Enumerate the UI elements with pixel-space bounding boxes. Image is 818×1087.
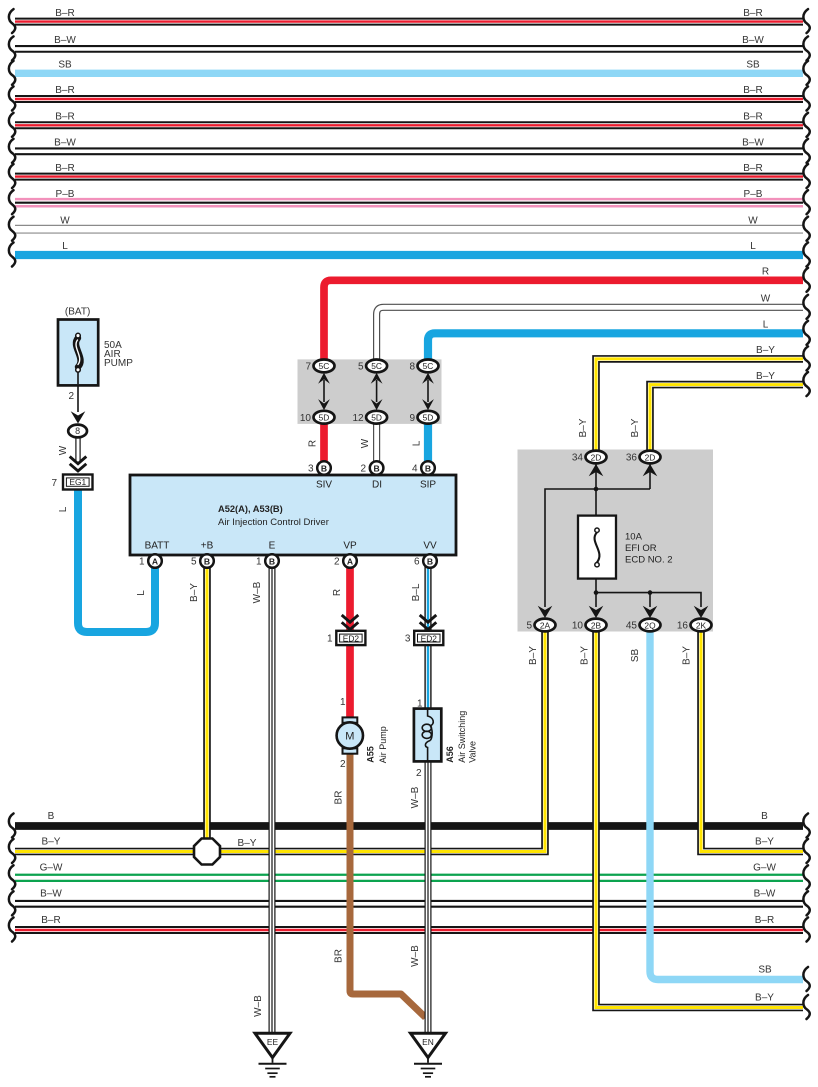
svg-text:Air Injection Control Driver: Air Injection Control Driver [218, 517, 329, 528]
svg-text:Air Pump: Air Pump [378, 726, 388, 763]
svg-text:L: L [62, 241, 68, 252]
svg-text:EE: EE [267, 1037, 279, 1047]
svg-text:2A: 2A [540, 620, 551, 630]
svg-text:L: L [763, 320, 769, 331]
svg-text:W: W [60, 215, 70, 226]
svg-text:VV: VV [423, 541, 437, 552]
svg-text:B: B [427, 556, 433, 566]
svg-text:G–W: G–W [40, 863, 63, 874]
svg-text:W: W [58, 445, 69, 455]
svg-text:12: 12 [352, 413, 364, 424]
svg-text:+B: +B [201, 541, 214, 552]
svg-text:2: 2 [340, 759, 346, 770]
svg-text:10: 10 [572, 621, 584, 632]
svg-text:B–Y: B–Y [682, 646, 693, 665]
svg-text:A52(A), A53(B): A52(A), A53(B) [218, 504, 283, 514]
svg-text:2K: 2K [696, 620, 707, 630]
svg-text:5: 5 [191, 557, 197, 568]
svg-text:B–R: B–R [55, 85, 74, 96]
svg-text:2: 2 [361, 464, 367, 475]
svg-text:B–Y: B–Y [630, 418, 641, 437]
svg-text:SIV: SIV [316, 480, 332, 491]
svg-text:R: R [332, 589, 343, 596]
svg-text:L: L [412, 440, 423, 446]
svg-text:R: R [762, 267, 769, 278]
svg-text:A56: A56 [445, 746, 455, 763]
svg-text:B–R: B–R [55, 163, 74, 174]
svg-text:5D: 5D [371, 413, 382, 423]
svg-text:5: 5 [358, 362, 364, 373]
svg-text:ED2: ED2 [421, 633, 438, 643]
svg-text:SB: SB [746, 60, 760, 71]
svg-text:10A: 10A [625, 532, 643, 543]
svg-text:A: A [152, 556, 158, 566]
svg-text:B–R: B–R [55, 8, 74, 19]
svg-text:ED2: ED2 [343, 633, 360, 643]
svg-text:B–R: B–R [743, 163, 762, 174]
svg-text:2B: 2B [591, 620, 602, 630]
svg-text:B–R: B–R [755, 915, 774, 926]
svg-text:Valve: Valve [467, 741, 477, 763]
svg-text:45: 45 [626, 621, 638, 632]
svg-text:7: 7 [51, 478, 57, 489]
svg-text:1: 1 [340, 697, 346, 708]
svg-text:BR: BR [334, 791, 345, 805]
svg-text:W: W [748, 215, 758, 226]
svg-text:B–W: B–W [54, 138, 76, 149]
svg-text:B: B [761, 811, 768, 822]
svg-text:W: W [360, 438, 371, 448]
svg-text:B–R: B–R [743, 112, 762, 123]
svg-text:SB: SB [58, 60, 72, 71]
svg-text:8: 8 [409, 362, 415, 373]
svg-text:1: 1 [256, 557, 262, 568]
svg-text:7: 7 [305, 362, 311, 373]
svg-text:2D: 2D [645, 452, 656, 462]
svg-text:B: B [373, 463, 379, 473]
svg-text:B: B [204, 556, 210, 566]
svg-text:B–Y: B–Y [755, 992, 774, 1003]
svg-text:3: 3 [308, 464, 314, 475]
svg-text:B–R: B–R [41, 915, 60, 926]
svg-text:(BAT): (BAT) [65, 307, 90, 318]
svg-text:B–R: B–R [743, 8, 762, 19]
svg-text:A: A [347, 556, 353, 566]
svg-text:E: E [269, 541, 276, 552]
svg-text:W–B: W–B [252, 581, 263, 603]
svg-text:B–Y: B–Y [578, 418, 589, 437]
svg-text:B–Y: B–Y [42, 836, 61, 847]
svg-text:5C: 5C [423, 361, 434, 371]
svg-text:W–B: W–B [253, 995, 264, 1017]
svg-text:16: 16 [677, 621, 689, 632]
svg-text:L: L [58, 506, 69, 512]
svg-text:PUMP: PUMP [104, 358, 133, 369]
svg-text:9: 9 [409, 413, 415, 424]
svg-text:BATT: BATT [145, 541, 170, 552]
svg-text:ECD NO. 2: ECD NO. 2 [625, 555, 673, 566]
svg-text:3: 3 [405, 634, 411, 645]
svg-text:36: 36 [626, 453, 638, 464]
svg-text:SIP: SIP [420, 480, 436, 491]
svg-text:B: B [48, 811, 55, 822]
svg-text:R: R [308, 440, 319, 447]
svg-text:B–Y: B–Y [189, 583, 200, 602]
svg-text:EFI OR: EFI OR [625, 543, 657, 554]
svg-text:B–R: B–R [743, 85, 762, 96]
svg-text:5C: 5C [371, 361, 382, 371]
svg-text:B: B [425, 463, 431, 473]
svg-text:B: B [269, 556, 275, 566]
svg-text:2: 2 [334, 557, 340, 568]
svg-text:DI: DI [372, 480, 382, 491]
svg-text:BR: BR [334, 949, 345, 963]
svg-text:B–R: B–R [55, 112, 74, 123]
svg-text:B–W: B–W [54, 35, 76, 46]
svg-text:W–B: W–B [410, 945, 421, 967]
svg-text:A55: A55 [366, 746, 376, 763]
svg-text:P–B: P–B [744, 189, 763, 200]
svg-text:10: 10 [300, 413, 312, 424]
svg-text:4: 4 [412, 464, 418, 475]
svg-text:B–Y: B–Y [756, 345, 775, 356]
svg-text:M: M [345, 731, 354, 743]
svg-text:5C: 5C [319, 361, 330, 371]
svg-text:W: W [761, 294, 771, 305]
svg-text:SB: SB [630, 649, 641, 663]
svg-text:B: B [321, 463, 327, 473]
svg-text:5D: 5D [319, 413, 330, 423]
svg-text:B–W: B–W [754, 889, 776, 900]
svg-text:B–Y: B–Y [755, 836, 774, 847]
svg-text:5: 5 [526, 621, 532, 632]
svg-text:EN: EN [422, 1037, 434, 1047]
svg-text:2D: 2D [591, 452, 602, 462]
svg-text:Air Switching: Air Switching [457, 711, 467, 763]
svg-text:B–W: B–W [742, 138, 764, 149]
svg-text:B–Y: B–Y [756, 371, 775, 382]
svg-text:5D: 5D [423, 413, 434, 423]
svg-text:B–L: B–L [411, 583, 422, 601]
svg-text:B–W: B–W [40, 889, 62, 900]
svg-text:B–Y: B–Y [580, 646, 591, 665]
svg-text:8: 8 [75, 426, 80, 436]
svg-text:VP: VP [343, 541, 357, 552]
svg-text:L: L [750, 241, 756, 252]
svg-text:EG1: EG1 [69, 477, 86, 487]
svg-text:G–W: G–W [753, 863, 776, 874]
svg-text:B–Y: B–Y [528, 646, 539, 665]
svg-text:SB: SB [758, 964, 772, 975]
svg-text:W–B: W–B [410, 786, 421, 808]
svg-text:1: 1 [417, 699, 423, 710]
svg-text:1: 1 [327, 634, 333, 645]
svg-text:2Q: 2Q [644, 620, 656, 630]
svg-text:1: 1 [139, 557, 145, 568]
svg-text:2: 2 [68, 391, 74, 402]
svg-text:L: L [136, 590, 147, 596]
svg-text:6: 6 [414, 557, 420, 568]
svg-text:B–Y: B–Y [238, 838, 257, 849]
svg-text:2: 2 [416, 768, 422, 779]
svg-text:B–W: B–W [742, 35, 764, 46]
svg-text:34: 34 [572, 453, 584, 464]
svg-text:P–B: P–B [56, 189, 75, 200]
